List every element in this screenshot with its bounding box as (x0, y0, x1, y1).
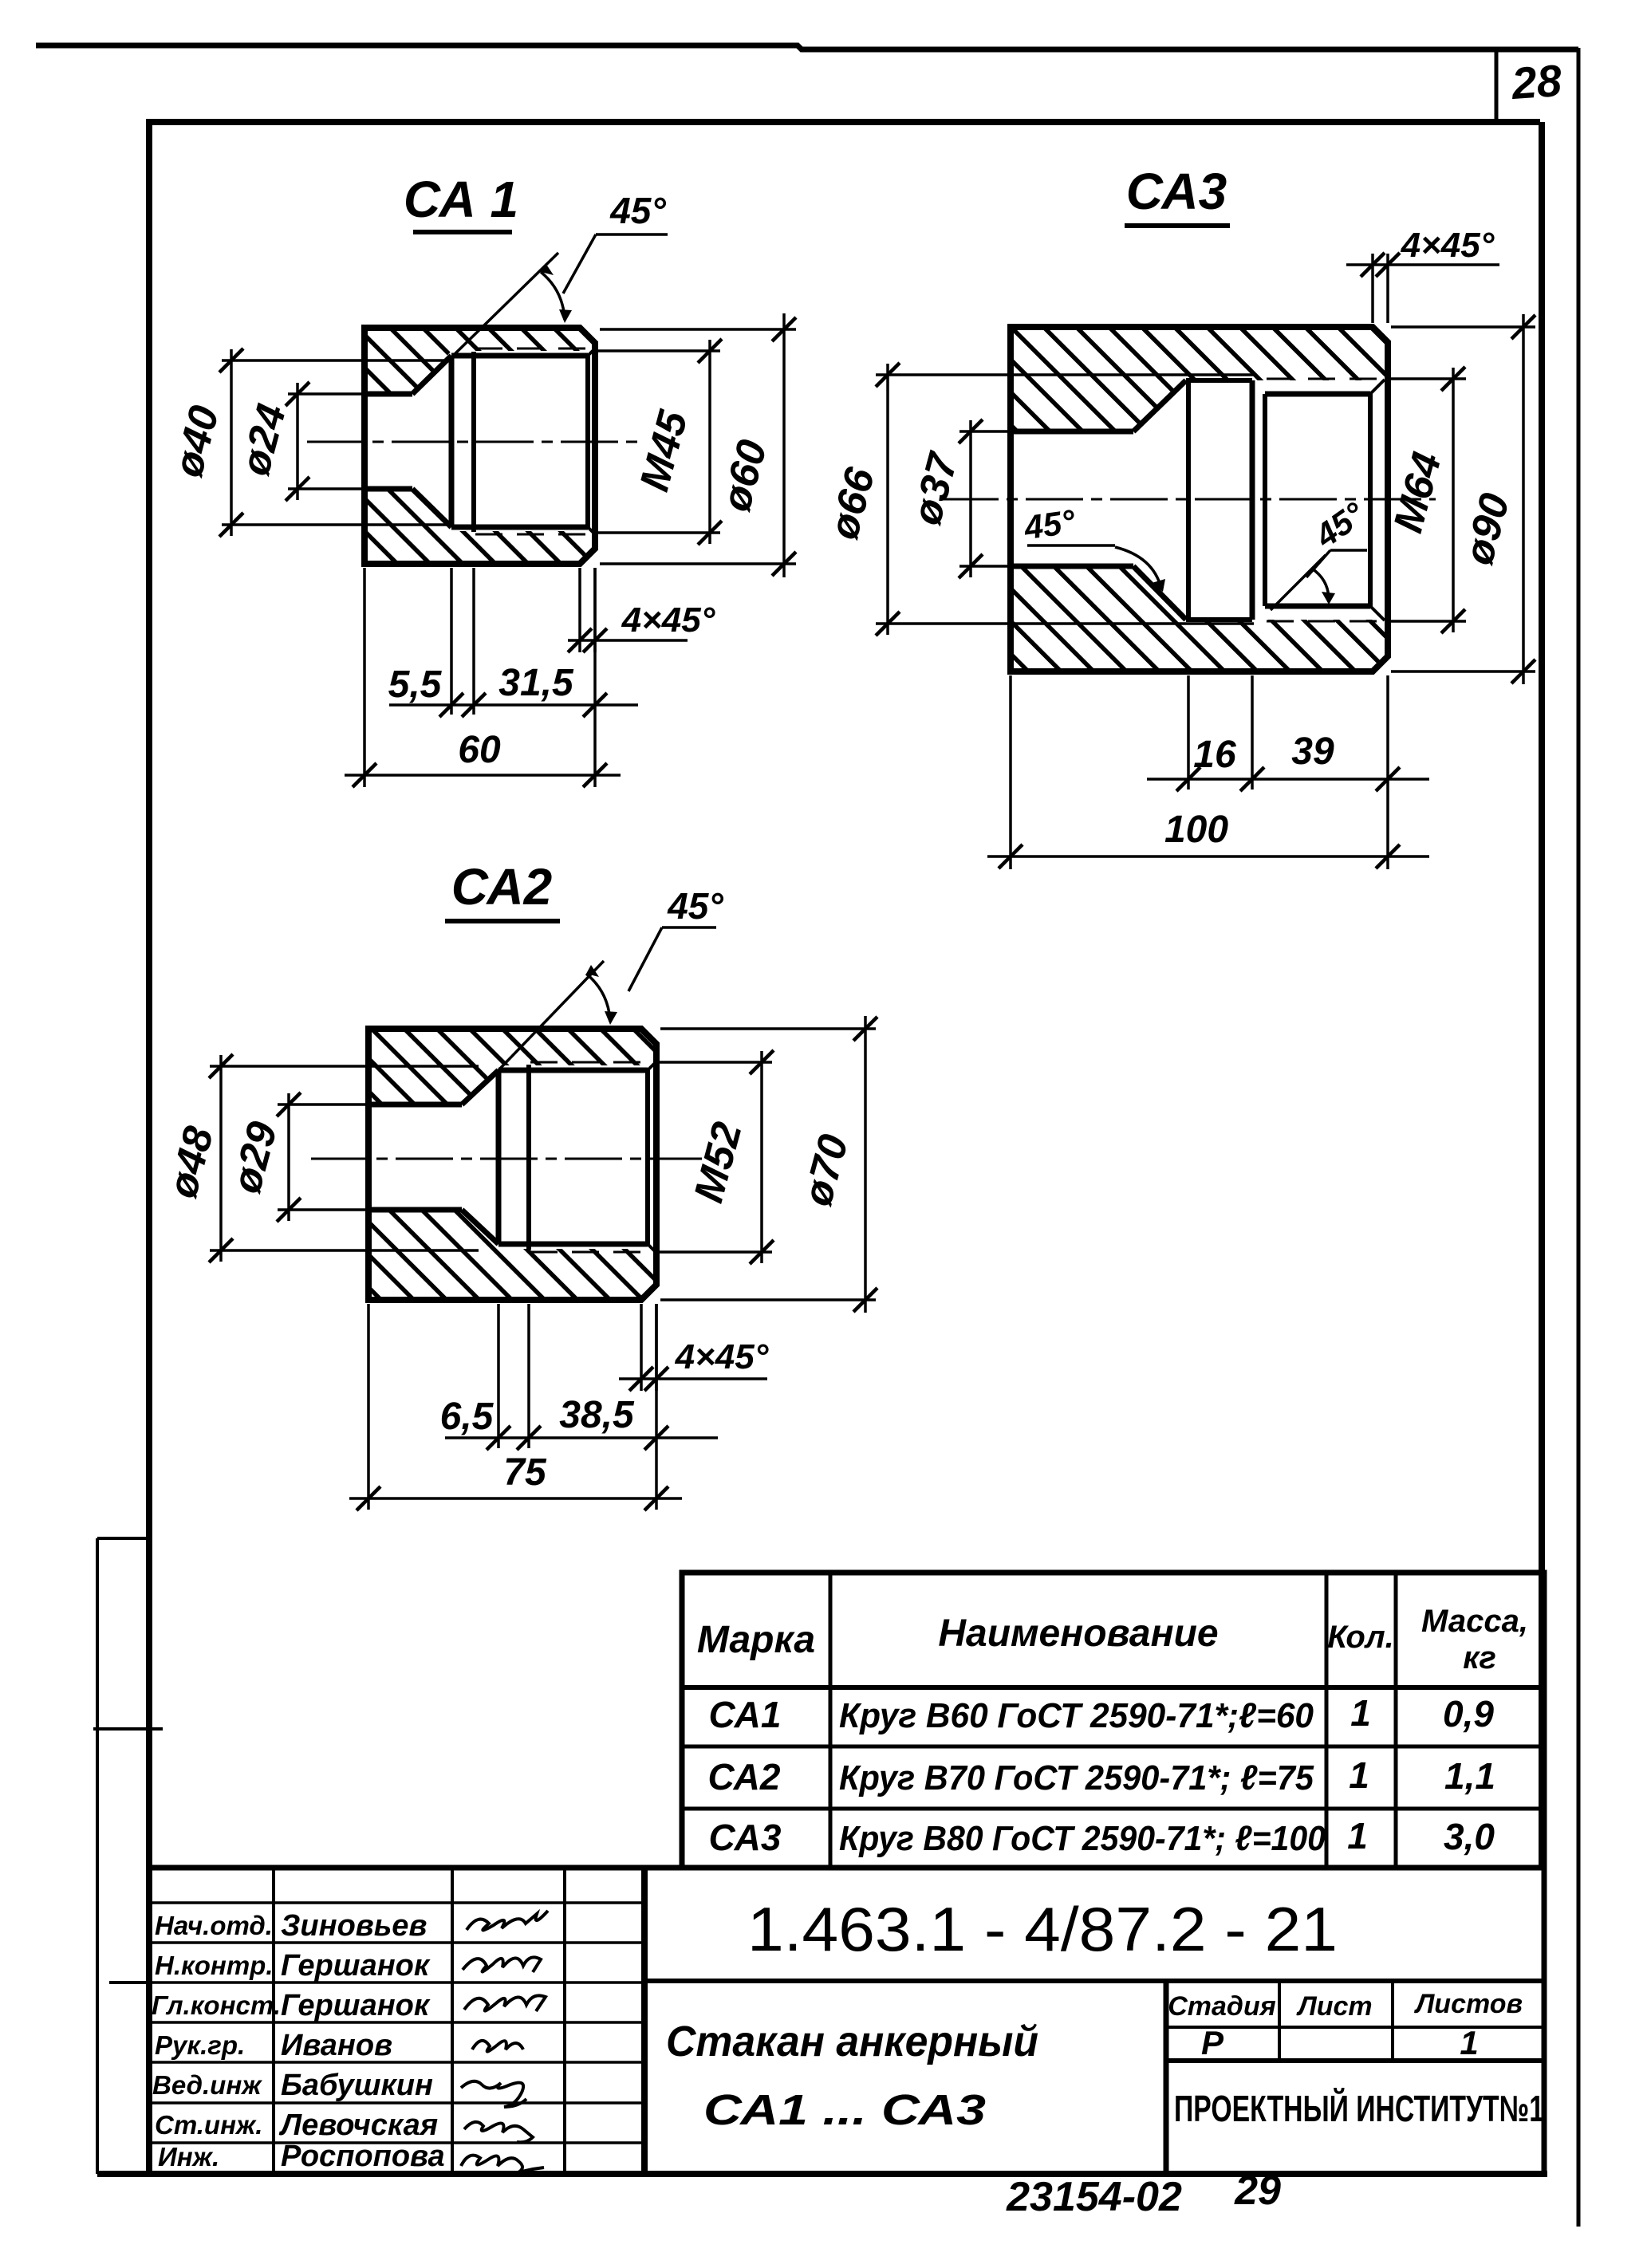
svg-text:Зиновьев: Зиновьев (281, 1909, 427, 1943)
svg-text:СА2: СА2 (708, 1756, 781, 1797)
left margin box divider 2 (93, 1727, 163, 1731)
svg-text:Наименование: Наименование (938, 1612, 1218, 1655)
CA3 dim tick x1490 (1176, 767, 1200, 791)
CA2 dim d48 extension bottom (210, 1249, 479, 1252)
CA1 small bore top line (364, 392, 412, 397)
CA2 inner chamfer bottom (648, 1244, 656, 1253)
top border line of sheet (36, 45, 1578, 49)
svg-text:Кол.: Кол. (1327, 1620, 1394, 1655)
CA2 45deg leader underline (662, 926, 716, 929)
CA2 cavity bottom line (498, 1242, 648, 1247)
CA2 small bore top line (368, 1102, 462, 1108)
CA2 inner right face (645, 1070, 650, 1244)
svg-text:3,0: 3,0 (1444, 1816, 1495, 1857)
parts table row line 2 (682, 1807, 1544, 1811)
CA3 dim M64 tick top (1441, 367, 1465, 391)
svg-text:Нач.отд.: Нач.отд. (155, 1911, 273, 1940)
parts table column line 3 (1394, 1573, 1398, 1868)
CA1 45deg angle side line (452, 253, 558, 356)
svg-text:0,9: 0,9 (1443, 1693, 1494, 1734)
CA1 dim d40 line (230, 349, 233, 536)
CA2 dim M52 extension top (660, 1061, 772, 1064)
CA2 dim d29 tick bottom (277, 1198, 301, 1222)
CA3 dim d90 tick top (1511, 315, 1535, 339)
CA3 thread bore top line (1265, 392, 1370, 397)
svg-text:6,5: 6,5 (440, 1396, 495, 1438)
SECTION:CA3 (821, 163, 1535, 869)
CA2 dim tick x823a (644, 1426, 668, 1450)
CA2 45deg arc arrow bottom (605, 1011, 617, 1025)
svg-text:Вед.инж: Вед.инж (152, 2070, 262, 2100)
CA2 45deg leader diagonal (628, 927, 662, 991)
CA2 4x45 extension left (640, 1304, 643, 1391)
CA3 hatched lower wall (1011, 566, 1388, 671)
signature column line 3 (563, 1868, 566, 2174)
CA2 4x45 extension right (655, 1304, 658, 1391)
stage column line 1 (1278, 1981, 1281, 2061)
CA2 cone end vertical (496, 1070, 502, 1244)
svg-text:Стакан анкерный: Стакан анкерный (666, 2018, 1038, 2065)
svg-text:Круг В60 ГоСТ 2590-71*;ℓ=60: Круг В60 ГоСТ 2590-71*;ℓ=60 (839, 1696, 1314, 1735)
CA1 dim M45 line (708, 340, 711, 544)
CA1 small bore bottom line (364, 486, 412, 492)
CA2 bottom extension cone end (497, 1304, 500, 1448)
CA1 dim d40 tick bottom (219, 513, 243, 537)
CA1 dim d24 tick bottom (286, 477, 309, 501)
svg-text:28: 28 (1509, 55, 1563, 108)
CA3 dim d66 line (886, 364, 889, 635)
CA1 cone lower line (412, 489, 451, 527)
CA3 inner chamfer top (1370, 380, 1385, 394)
CA2 inner chamfer top (648, 1061, 656, 1070)
CA3 right 45deg arc (1312, 569, 1329, 602)
CA1 dim d60 tick top (772, 317, 796, 341)
CA2 4x45 tick right (644, 1367, 668, 1391)
svg-text:Листов: Листов (1413, 1989, 1523, 2019)
CA3 4x45 tick right (1376, 253, 1400, 277)
CA1 bottom extension right face (593, 568, 597, 787)
CA3 undercut top line (1186, 378, 1252, 383)
CA1 4x45 extension left (578, 568, 581, 652)
svg-text:31,5: 31,5 (498, 662, 574, 704)
signature row line 0 (149, 1901, 644, 1904)
CA3 label underline (1125, 223, 1230, 228)
CA1 45deg arc (541, 272, 565, 320)
CA1 dim M45 extension bottom (598, 531, 720, 534)
drawing frame (149, 122, 1540, 2174)
CA2 bottom extension left face (367, 1304, 370, 1510)
CA2 45deg arc arrow top (586, 965, 599, 977)
parts table outer box (682, 1573, 1544, 1868)
svg-text:4×45°: 4×45° (1401, 226, 1495, 265)
CA3 dim d66 tick top (876, 363, 900, 387)
CA2 dim 6.5-38.5 line (445, 1436, 718, 1439)
signature squiggle 7 (461, 2156, 544, 2172)
svg-text:75: 75 (503, 1451, 547, 1494)
SECTION:TITLEBLOCK (97, 1868, 1547, 2174)
CA1 dim d60 tick bottom (772, 552, 796, 576)
frame right edge (1539, 122, 1545, 1868)
signature row line 4 (149, 2061, 644, 2064)
CA1 4x45 dim line (568, 639, 688, 642)
CA1 dim M45 tick top (698, 339, 722, 363)
signature row line 5 (149, 2101, 644, 2105)
CA1 dim d24 line (296, 383, 299, 500)
title block top border (149, 1865, 1544, 1871)
svg-text:1,1: 1,1 (1444, 1755, 1495, 1797)
svg-text:1: 1 (1350, 1692, 1371, 1734)
CA1 body outline (364, 328, 595, 564)
svg-text:Марка: Марка (697, 1619, 815, 1661)
svg-text:1.463.1 - 4/87.2 - 21: 1.463.1 - 4/87.2 - 21 (747, 1894, 1338, 1964)
CA2 4x45 dim line (619, 1377, 767, 1380)
CA3 small bore top line (1011, 429, 1133, 435)
CA1 4x45 tick right (583, 628, 607, 652)
CA1 45deg arc arrow top (541, 263, 554, 275)
svg-text:23154-02: 23154-02 (1006, 2174, 1182, 2220)
CA1 dim 60 line (345, 774, 621, 777)
CA2 dim d48 tick bottom (209, 1238, 233, 1262)
SECTION:TABLE (682, 1573, 1544, 1868)
CA3 thread crest dashed bottom (1267, 620, 1388, 623)
CA3 dim d37 line (969, 420, 972, 577)
CA1 4x45 tick left (568, 628, 592, 652)
CA3 left 45deg arc (1115, 547, 1161, 589)
CA2 45deg angle side line (498, 961, 604, 1070)
CA2 dim 75 tick left (357, 1486, 380, 1510)
CA2 dim M52 line (760, 1051, 763, 1263)
CA3 dim d90 extension bottom (1391, 670, 1535, 673)
CA2 4x45 tick left (629, 1367, 653, 1391)
CA2 dim d48 tick top (209, 1054, 233, 1078)
CA1 45deg arc arrow bottom (559, 309, 572, 323)
svg-text:Р: Р (1201, 2024, 1224, 2061)
CA1 thread crest dashed top (475, 348, 595, 350)
stage row underline (1166, 2058, 1544, 2063)
stage header underline (1166, 2026, 1544, 2029)
CA1 dim tick x746a (583, 693, 607, 717)
CA3 bottom extension undercut start (1187, 675, 1190, 789)
CA3 dim 100 line (987, 855, 1429, 858)
svg-text:Ст.инж.: Ст.инж. (155, 2110, 262, 2140)
SECTION:CA1 (165, 171, 796, 787)
svg-text:Лист: Лист (1295, 1991, 1372, 2022)
title block bottom border (97, 2171, 1547, 2177)
CA2 small bore bottom line (368, 1207, 462, 1213)
CA1 dim M45 tick bottom (698, 521, 722, 545)
CA2 dim d48 extension top (210, 1065, 479, 1068)
svg-text:16: 16 (1193, 734, 1236, 776)
name vs stamp divider (1164, 1981, 1169, 2174)
signature area right divider (641, 1868, 648, 2174)
CA2 dim M52 tick top (750, 1050, 774, 1074)
CA2 bottom extension thread start (527, 1304, 530, 1448)
CA3 dim d37 extension top (959, 430, 1011, 433)
CA3 dim M64 extension top (1391, 377, 1466, 380)
CA1 label underline (413, 230, 512, 234)
CA2 thread crest dashed top (530, 1061, 656, 1064)
CA1 dim d40 tick top (219, 348, 243, 372)
svg-text:1: 1 (1460, 2024, 1478, 2061)
signature squiggle 3 (464, 1995, 546, 2011)
CA2 cone lower line (462, 1210, 498, 1244)
CA1 thread crest dashed bottom (475, 534, 595, 536)
CA1 4x45 extension right (593, 568, 597, 652)
CA1 dim d24 extension bottom (288, 487, 364, 490)
CA1 inner chamfer top (588, 348, 595, 356)
CA1 inner right face (585, 356, 590, 527)
CA3 dim d66 extension top (876, 373, 1254, 376)
stage column line 2 (1391, 1981, 1394, 2061)
CA1 dim d24 tick top (286, 382, 309, 406)
CA2 dim d29 extension bottom (278, 1208, 368, 1211)
CA1 dim 5.5-31.5 line (389, 703, 638, 707)
parts table column line 1 (829, 1573, 833, 1868)
svg-text:кг: кг (1463, 1640, 1496, 1675)
CA3 thread bore bottom line (1265, 604, 1370, 609)
CA3 dim d37 extension bottom (959, 565, 1011, 568)
CA2 dim tick x663 (517, 1426, 541, 1450)
CA2 dim M52 extension bottom (660, 1250, 772, 1254)
signature row line 1 (149, 1941, 644, 1944)
CA3 undercut end vertical (1250, 380, 1255, 620)
svg-text:Иванов: Иванов (281, 2029, 392, 2062)
CA1 dim d40 extension bottom (222, 523, 447, 526)
CA3 right 45deg arc arrow (1322, 592, 1335, 604)
CA3 dim d66 tick bottom (876, 612, 900, 636)
svg-text:1: 1 (1347, 1815, 1368, 1857)
CA1 dim d40 extension top (222, 359, 447, 362)
CA1 dim 60 tick left (353, 763, 376, 787)
CA1 dim tick x566 (439, 693, 463, 717)
CA1 dim d60 line (782, 313, 786, 577)
svg-text:Роспопова: Роспопова (281, 2140, 445, 2173)
CA3 4x45 extension right (1386, 254, 1389, 323)
svg-text:39: 39 (1291, 730, 1334, 773)
CA1 cavity top line (451, 353, 588, 359)
CA3 bottom extension left face (1009, 675, 1012, 869)
svg-text:Круг В80 ГоСТ 2590-71*; ℓ=100: Круг В80 ГоСТ 2590-71*; ℓ=100 (839, 1819, 1326, 1858)
svg-text:Н.контр.: Н.контр. (155, 1951, 273, 1980)
CA2 dim d29 extension top (278, 1103, 368, 1106)
CA3 dim d66 extension bottom (876, 622, 1254, 625)
signature squiggle 2 (463, 1957, 541, 1972)
CA3 thread start vertical (1263, 394, 1267, 606)
CA2 thread crest dashed bottom (530, 1251, 656, 1254)
CA3 dim d90 tick bottom (1511, 660, 1535, 683)
CA1 dim 60 tick right (583, 763, 607, 787)
signature squiggle 5 (461, 2081, 526, 2107)
signature squiggle 1 (467, 1911, 548, 1931)
signature row line 2 (149, 1981, 644, 1984)
CA2 dim d70 extension top (660, 1027, 876, 1030)
CA2 bottom extension right face (655, 1304, 658, 1510)
signature squiggle 4 (472, 2041, 523, 2052)
CA3 dim 100 tick right (1376, 845, 1400, 868)
svg-text:60: 60 (458, 729, 501, 771)
parts table row line 1 (682, 1745, 1544, 1749)
svg-text:СА1: СА1 (709, 1694, 782, 1735)
CA3 hatched upper wall (1011, 327, 1388, 431)
CA3 left 45deg underline (1027, 544, 1115, 547)
CA2 45deg arc (586, 974, 610, 1022)
CA3 right 45deg leader underline (1330, 549, 1367, 552)
CA2 body outline (368, 1029, 656, 1300)
svg-text:Масса,: Масса, (1421, 1604, 1528, 1639)
signature column line 1 (272, 1868, 275, 2174)
left margin box divider 1 (97, 1537, 149, 1540)
CA3 dim d37 tick top (959, 419, 983, 443)
CA1 45deg leader underline (596, 233, 668, 236)
CA2 cone upper line (462, 1070, 498, 1104)
CA2 dim tick x625 (487, 1426, 510, 1450)
svg-text:Гершанок: Гершанок (281, 1989, 431, 2022)
CA2 hatched lower wall (368, 1210, 656, 1300)
CA3 cone upper line (1133, 380, 1186, 431)
CA2 dim 75 line (349, 1497, 682, 1500)
CA3 dim d37 tick bottom (959, 554, 983, 578)
CA2 dim d70 tick bottom (853, 1288, 877, 1312)
svg-text:45°: 45° (1021, 502, 1078, 547)
svg-text:Гершанок: Гершанок (281, 1949, 431, 1983)
CA2 dim d70 extension bottom (660, 1298, 876, 1301)
CA3 bottom extension undercut end (1251, 675, 1254, 789)
CA3 dim 16-39 line (1147, 778, 1429, 781)
CA3 dim M64 tick bottom (1441, 609, 1465, 633)
signature column line 2 (451, 1868, 454, 2174)
CA3 4x45 extension left (1371, 254, 1374, 323)
title block right border (1542, 1868, 1547, 2174)
CA2 hatched upper wall (368, 1029, 656, 1104)
CA3 inner chamfer bottom (1370, 606, 1385, 620)
parts table column line 2 (1325, 1573, 1329, 1868)
CA2 thread start vertical (526, 1065, 531, 1250)
CA3 body outline (1011, 327, 1388, 671)
CA3 dim M64 extension bottom (1391, 620, 1466, 623)
svg-text:4×45°: 4×45° (675, 1337, 769, 1376)
CA3 right 45deg leader diagonal (1306, 550, 1330, 577)
CA2 label underline (445, 919, 560, 923)
CA3 inner right face (1368, 394, 1373, 606)
svg-text:СА1 ... СА3: СА1 ... СА3 (703, 2086, 986, 2134)
svg-text:Круг В70 ГоСТ 2590-71*; ℓ=75: Круг В70 ГоСТ 2590-71*; ℓ=75 (839, 1758, 1314, 1797)
CA2 dim d70 line (864, 1016, 867, 1313)
CA2 dim M52 tick bottom (750, 1240, 774, 1264)
CA3 dim tick x1740a (1376, 767, 1400, 791)
CA1 cavity bottom line (451, 525, 588, 530)
CA1 bottom extension left face (363, 568, 366, 787)
CA1 bottom extension cone end (450, 568, 453, 715)
SECTION:CA2 (160, 858, 877, 1510)
CA3 dim tick x1570 (1240, 767, 1264, 791)
CA1 dim tick x594 (462, 693, 486, 717)
left margin boxes vertical (96, 1538, 99, 2174)
CA1 hatched upper wall (364, 328, 595, 394)
svg-text:СА 1: СА 1 (404, 171, 518, 228)
svg-text:5,5: 5,5 (388, 663, 443, 706)
CA2 centerline (311, 1158, 702, 1160)
svg-text:СА3: СА3 (709, 1817, 782, 1858)
left margin box divider 3 (109, 1981, 149, 1984)
svg-text:СА3: СА3 (1126, 163, 1227, 220)
CA2 dim d29 tick top (277, 1093, 301, 1116)
CA3 undercut bottom line (1186, 617, 1252, 622)
CA3 right 45deg angle side line (1271, 555, 1326, 610)
signature squiggle 6 (464, 2122, 533, 2143)
CA3 dim M64 line (1452, 368, 1455, 632)
svg-text:Рук.гр.: Рук.гр. (155, 2030, 245, 2060)
CA1 dim d60 extension top (600, 328, 796, 331)
signature row line 6 (149, 2141, 644, 2144)
svg-text:Левочская: Левочская (278, 2109, 438, 2142)
CA3 cone end vertical (1186, 380, 1191, 620)
CA3 small bore bottom line (1011, 564, 1133, 569)
svg-text:Стадия: Стадия (1168, 1991, 1276, 2022)
svg-text:Гл.конст.: Гл.конст. (152, 1990, 281, 2020)
svg-text:СА2: СА2 (451, 858, 552, 915)
CA1 dim M45 extension top (598, 349, 720, 352)
CA1 thread start vertical (471, 352, 476, 532)
CA3 thread crest dashed top (1267, 378, 1388, 380)
CA1 inner chamfer bottom (588, 527, 595, 534)
svg-text:1: 1 (1349, 1754, 1369, 1796)
doc number box bottom (644, 1979, 1544, 1983)
CA3 bottom extension right face (1386, 675, 1389, 869)
CA3 left 45deg arc arrow (1152, 579, 1165, 592)
CA1 bottom extension thread start (472, 568, 475, 715)
svg-text:45°: 45° (667, 885, 723, 927)
CA1 cone end vertical (449, 356, 455, 527)
CA3 4x45 dim line (1346, 263, 1499, 266)
CA3 4x45 tick left (1361, 253, 1385, 277)
parts table header line (682, 1685, 1544, 1690)
CA1 cone upper line (412, 356, 451, 394)
page number cell divider (1495, 48, 1499, 121)
svg-text:100: 100 (1164, 809, 1228, 851)
svg-text:ПРОЕКТНЫЙ ИНСТИТУТ№1: ПРОЕКТНЫЙ ИНСТИТУТ№1 (1174, 2088, 1544, 2129)
CA1 dim d24 extension top (288, 392, 364, 396)
CA2 dim d70 tick top (853, 1017, 877, 1041)
svg-text:38,5: 38,5 (559, 1394, 635, 1436)
svg-text:45°: 45° (609, 190, 666, 231)
CA2 dim 75 tick right (644, 1486, 668, 1510)
CA1 hatched lower wall (364, 489, 595, 564)
CA3 dim d90 line (1522, 314, 1525, 684)
CA3 centerline (941, 498, 1436, 501)
CA2 dim d29 line (287, 1093, 290, 1221)
CA1 dim d60 extension bottom (600, 562, 796, 565)
svg-text:4×45°: 4×45° (621, 600, 715, 640)
CA3 cone lower line (1133, 566, 1186, 620)
CA1 centerline (307, 441, 638, 443)
CA3 dim 100 tick left (999, 845, 1023, 868)
svg-text:Бабушкин: Бабушкин (281, 2069, 433, 2102)
CA3 dim d90 extension top (1391, 325, 1535, 329)
CA1 45deg leader diagonal (563, 234, 596, 293)
signature row line 3 (149, 2021, 644, 2024)
CA2 dim d48 line (219, 1055, 223, 1262)
svg-text:Инж.: Инж. (158, 2142, 219, 2172)
right sheet edge line (1577, 48, 1581, 2227)
CA2 cavity top line (498, 1068, 648, 1073)
